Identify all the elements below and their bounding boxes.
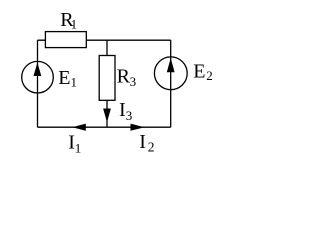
svg-text:1: 1 — [71, 17, 78, 32]
svg-text:I: I — [119, 99, 126, 121]
current arrow I2 (points right on bottom wire) — [131, 124, 145, 131]
svg-text:R: R — [117, 65, 131, 87]
resistor R3 — [99, 56, 115, 101]
wire: right vertical branch through E2 — [170, 40, 172, 127]
wire: middle vertical branch through R3 — [106, 40, 108, 127]
resistor R1 — [45, 32, 86, 48]
source E1 — [22, 61, 54, 93]
current arrow I3 (points down above bottom wire) — [103, 109, 111, 123]
current arrow I1 (points left on bottom wire) — [72, 124, 86, 131]
arrow of source E1 — [34, 63, 42, 77]
arrow of source E2 — [167, 58, 175, 72]
svg-text:1: 1 — [71, 74, 78, 89]
wire: top horizontal net — [38, 39, 171, 41]
svg-text:1: 1 — [75, 140, 82, 155]
svg-text:E: E — [193, 61, 205, 83]
svg-text:2: 2 — [206, 68, 213, 83]
svg-text:3: 3 — [130, 74, 137, 89]
wire: bottom horizontal net — [38, 126, 171, 128]
source E2 — [154, 57, 187, 90]
svg-text:E: E — [58, 67, 70, 89]
svg-text:2: 2 — [148, 140, 155, 155]
svg-text:3: 3 — [126, 108, 133, 123]
svg-text:I: I — [139, 131, 146, 153]
wire: left vertical branch through E1 — [37, 40, 39, 127]
